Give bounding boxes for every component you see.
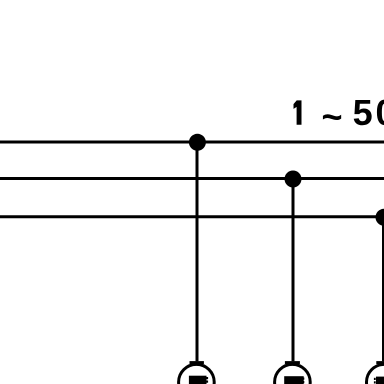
- load E2 body (bell dome, cut by frame): [275, 364, 311, 384]
- load E3 body (bell dome, cut by frame): [367, 364, 384, 384]
- svg-text:~: ~: [322, 96, 343, 137]
- wire: phase bus L2: [0, 177, 384, 180]
- node junction on L3: [376, 209, 384, 226]
- wire: drop from L1 to load E1: [196, 142, 199, 361]
- load E2 filled block: [284, 376, 304, 384]
- wire: phase bus L1: [0, 141, 384, 144]
- svg-text:5: 5: [353, 92, 373, 133]
- wire: drop from L3 to load E3: [382, 217, 384, 361]
- node junction on L2: [285, 171, 302, 188]
- digit 1 drawn as path (no foot serif): [294, 100, 302, 124]
- node junction on L1: [189, 134, 206, 151]
- load E1 filled block: [189, 376, 207, 384]
- wire: drop from L2 to load E2: [292, 179, 295, 362]
- load E2 terminal bar: [285, 361, 300, 364]
- load E1 body (bell dome, cut by frame): [179, 364, 215, 384]
- load E3 filled block: [376, 377, 384, 384]
- load E3 terminal bar: [376, 361, 384, 364]
- wire: phase bus L3: [0, 215, 384, 218]
- load E1 terminal bar: [190, 361, 204, 364]
- net label: 1 ~ 50 Hz: [294, 92, 384, 137]
- svg-text:0: 0: [376, 92, 384, 133]
